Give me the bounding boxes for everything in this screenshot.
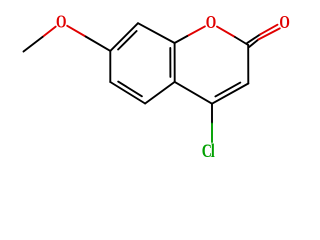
double bond inner line C3=C4 (215, 83, 240, 97)
svg-text:O: O (206, 13, 216, 32)
bond C4-Cl green half (211, 124, 213, 142)
bond O-CH3 red half (43, 27, 56, 37)
svg-text:O: O (56, 13, 66, 32)
bond O-CH3 black half (24, 37, 43, 52)
bond O1-C2 red half (217, 27, 235, 37)
bond C7-C8 (110, 23, 138, 51)
svg-text:l: l (211, 140, 215, 162)
bond C6-C5 (110, 82, 145, 104)
bond C3-C4 (212, 84, 248, 104)
double bond inner line C6=C5 (118, 82, 142, 97)
bond O1-C2 black half (235, 37, 248, 45)
atom label O (ring O1) (206, 13, 216, 32)
bond C4-C4a (175, 82, 212, 104)
bond C2=O line red half (260, 25, 277, 35)
bond O1-C8a red half (187, 26, 205, 36)
atom label Cl (202, 140, 215, 162)
bond C2=O line black half (247, 34, 260, 43)
atom label O (methoxy) (56, 13, 66, 32)
bond C8a-C4a (174, 43, 176, 82)
bond C2=O line black half (249, 40, 258, 47)
double bond inner line C7=C8 (118, 31, 137, 50)
bond C4-Cl black half (211, 104, 213, 124)
bond C7-C6 (109, 51, 111, 82)
atom label O (carbonyl) (279, 13, 289, 32)
double bond inner line C8a=C4a (169, 48, 171, 77)
bond C5-C4a (145, 82, 175, 104)
bond C2=O line red half (258, 28, 279, 39)
bond O-C7 black half (86, 37, 111, 51)
bond C8-C8a (138, 23, 175, 43)
svg-text:O: O (279, 13, 289, 32)
bond O-C7 red half (67, 26, 85, 37)
bond O1-C8a black half (175, 36, 188, 43)
bond C2-C3 (247, 45, 249, 84)
